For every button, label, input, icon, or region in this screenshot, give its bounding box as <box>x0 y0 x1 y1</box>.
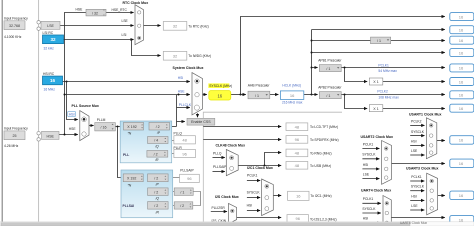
label: HSI input (boxed) <box>68 112 76 117</box>
PLL N multiplier <box>124 122 144 130</box>
wire: branch to RNG box <box>265 153 282 166</box>
PLL R divider <box>147 151 168 158</box>
svg-text:PCLK1: PCLK1 <box>411 175 422 179</box>
X1 multiplier APB2 <box>369 105 383 112</box>
svg-text:To SPDIFRX (MHz): To SPDIFRX (MHz) <box>310 138 339 142</box>
PLLQ value box <box>174 136 196 144</box>
FCLK Cortex clock box <box>450 49 474 57</box>
wire: to FCLK box <box>312 52 445 54</box>
svg-text:/ 2: / 2 <box>154 153 158 157</box>
HSI RC box <box>43 76 63 85</box>
svg-text:PLLQ: PLLQ <box>213 151 222 155</box>
junction: SYSCLK ethernet branch <box>240 94 242 96</box>
svg-text:AHB Prescaler: AHB Prescaler <box>248 84 271 88</box>
To RNG value box <box>286 149 308 157</box>
RTC clock mux <box>135 5 144 45</box>
svg-text:HSI: HSI <box>363 163 369 167</box>
wire: PLLI2SR stub into I2S mux <box>211 211 227 213</box>
svg-text:HSI: HSI <box>363 217 369 221</box>
svg-text:HSI: HSI <box>411 140 417 144</box>
svg-text:16 MHz: 16 MHz <box>44 87 56 91</box>
svg-text:HSE: HSE <box>47 134 55 138</box>
svg-text:108 MHz max: 108 MHz max <box>378 96 399 100</box>
label: SYSCLK (MHz) highlighted <box>208 83 229 88</box>
svg-text:PLLSAI: PLLSAI <box>123 204 135 208</box>
UART4 mux <box>383 196 391 227</box>
wire: I2S mux output <box>237 217 282 219</box>
svg-text:16: 16 <box>459 106 464 111</box>
svg-text:USART2 Clock Mux: USART2 Clock Mux <box>361 135 394 139</box>
wire: PLLM down to PLLSAI <box>118 127 124 178</box>
UART4 output box <box>450 216 474 224</box>
svg-text:X 192: X 192 <box>127 177 136 181</box>
junction: cortex timer branch <box>311 40 313 42</box>
svg-text:16: 16 <box>459 93 464 98</box>
svg-text:X 192: X 192 <box>127 125 136 129</box>
svg-text:4-26 MHz: 4-26 MHz <box>4 144 19 148</box>
wire: CSS arrow from mux bottom <box>197 113 199 117</box>
svg-text:16: 16 <box>290 93 295 98</box>
LSI RC box <box>43 35 64 44</box>
svg-text:USART3 Clock Mux: USART3 Clock Mux <box>406 167 439 171</box>
PLLSAI container <box>121 170 173 218</box>
HCLK value box <box>280 91 303 100</box>
To USB value box <box>286 162 308 170</box>
PLLSAI P divider <box>148 174 169 182</box>
wire: PLLSAIP stub into CLK48 mux <box>213 171 225 173</box>
wire: USART3 output <box>438 195 445 197</box>
wire: CLK48 mux output to USB <box>238 165 281 167</box>
svg-text:APB2 Prescaler: APB2 Prescaler <box>318 86 342 90</box>
USART2 mux <box>382 141 392 185</box>
panel left edge line <box>1 0 3 222</box>
svg-text:/ 1: / 1 <box>255 94 259 98</box>
svg-text:LSE: LSE <box>363 173 370 177</box>
svg-text:96: 96 <box>295 216 300 221</box>
To LCD-TFT value box <box>286 123 308 131</box>
svg-text:54 MHz max: 54 MHz max <box>378 69 397 73</box>
wire: into APB1 prescaler <box>312 67 318 69</box>
svg-text:PCLK1: PCLK1 <box>363 197 374 201</box>
cortex timer divider <box>371 37 391 44</box>
wire: PLLP output riser <box>170 126 177 128</box>
svg-text:PCLK1: PCLK1 <box>378 63 389 67</box>
junction: HSE CSS branch <box>178 94 180 96</box>
svg-text:HSE: HSE <box>76 8 84 12</box>
svg-text:LSI: LSI <box>122 33 127 37</box>
svg-text:PCLK2: PCLK2 <box>411 119 422 123</box>
svg-text:/ 2: / 2 <box>154 190 158 194</box>
svg-text:25: 25 <box>13 134 17 138</box>
junction: PLLM split <box>117 126 119 128</box>
svg-text:SYSCLK (MHz): SYSCLK (MHz) <box>209 84 232 88</box>
junction: APB1 branch <box>311 67 313 69</box>
svg-text:PLLSAIP: PLLSAIP <box>180 168 194 172</box>
svg-text:System Clock Mux: System Clock Mux <box>173 66 204 70</box>
wire: HSI down to PLL source mux <box>67 81 78 119</box>
svg-text:48: 48 <box>295 125 300 130</box>
svg-text:SYSCLK: SYSCLK <box>411 185 425 189</box>
svg-text:RTC Clock Mux: RTC Clock Mux <box>123 1 149 5</box>
USART2 output box <box>450 159 474 168</box>
svg-text:/ 2: / 2 <box>154 204 158 208</box>
svg-text:16: 16 <box>50 78 56 83</box>
svg-text:/ 1: / 1 <box>180 190 184 194</box>
svg-text:16: 16 <box>459 193 464 198</box>
junction: FCLK branch <box>311 52 313 54</box>
To I2S value box <box>287 215 308 223</box>
junction: HSI rail <box>66 81 68 83</box>
svg-text:APB1 Prescaler: APB1 Prescaler <box>318 58 342 62</box>
wire: to cortex divider <box>312 40 371 42</box>
junction: LSI IWDG branch <box>131 39 133 41</box>
PLLSAI R divider <box>148 202 169 210</box>
svg-text:/ 2: / 2 <box>154 177 158 181</box>
CLK48 mux <box>226 150 238 176</box>
wire: PLL source mux output to PLLM <box>89 125 94 127</box>
Enable CSS button <box>187 118 215 125</box>
wire: I2S_CKIN stub into I2S mux <box>211 224 227 226</box>
wire: PLLSAI to Q divider <box>146 191 148 193</box>
To Ethernet PTP box <box>450 13 474 21</box>
junction: HSE at rail <box>64 94 66 96</box>
svg-text:To IWDG (KHz): To IWDG (KHz) <box>188 54 211 58</box>
wire: UART4 output <box>391 217 445 219</box>
svg-text:16: 16 <box>296 194 301 199</box>
svg-text:SYSCLK: SYSCLK <box>362 207 376 211</box>
LSE source box <box>41 21 60 29</box>
svg-text:96: 96 <box>187 176 192 181</box>
svg-text:To I2S1,2,3 (MHz): To I2S1,2,3 (MHz) <box>310 217 337 221</box>
wire: RTC divider to RTC mux <box>106 12 134 14</box>
junction: HCLK rail <box>311 94 313 96</box>
APB1 peripheral clocks box <box>450 64 474 72</box>
svg-text:PLLQ: PLLQ <box>174 131 183 135</box>
svg-text:32 kHz: 32 kHz <box>44 46 55 50</box>
PLLR value box <box>174 149 196 157</box>
system clock mux <box>192 73 203 115</box>
wire: PLLM to PLL block <box>115 126 123 128</box>
svg-text:Input Frequency: Input Frequency <box>4 127 28 131</box>
wire: PLLSAI DIVR feed <box>168 205 174 207</box>
APB2 peripheral clocks box <box>450 91 474 99</box>
wire: X1 to APB1 timer box <box>383 81 445 83</box>
PLL source mux <box>80 111 89 141</box>
svg-text:I2C1 Clock Mux: I2C1 Clock Mux <box>247 166 273 170</box>
wire: PLLCLK into system clock mux <box>177 107 190 109</box>
svg-text:16: 16 <box>459 50 464 55</box>
svg-text:PLLSAIP: PLLSAIP <box>213 165 227 169</box>
LSE pin circle bottom <box>37 27 40 30</box>
wire: to SPDIFRX box <box>203 139 281 141</box>
svg-text:To USB (MHz): To USB (MHz) <box>310 164 331 168</box>
svg-text:48: 48 <box>295 163 300 168</box>
svg-text:32: 32 <box>50 37 56 42</box>
wire: PLL to Q divider <box>146 140 148 142</box>
svg-text:PCLK2: PCLK2 <box>377 90 388 94</box>
wire: SYSCLK box to AHB prescaler <box>231 94 246 96</box>
HCLK to AHB bus box <box>450 26 474 34</box>
wire: HSE box to PLL source mux <box>59 134 78 136</box>
svg-text:16: 16 <box>459 28 464 33</box>
svg-text:SYSCLK: SYSCLK <box>362 153 376 157</box>
svg-text:PLLI2SR: PLLI2SR <box>212 206 226 210</box>
APB1 prescaler dropdown <box>319 65 341 72</box>
svg-text:*N: *N <box>128 132 132 136</box>
wire: PLLSAI to R divider <box>146 205 148 207</box>
wire: HSE rail to system clock mux <box>64 94 189 96</box>
wire: AHB prescaler to HCLK box <box>270 94 279 96</box>
svg-text:UART5 Clock Mux: UART5 Clock Mux <box>400 221 427 225</box>
APB1 timer clocks box <box>450 78 474 86</box>
svg-text:HSI: HSI <box>178 76 184 80</box>
wire: HSI stub into I2C1 mux <box>247 210 260 212</box>
svg-text:PLL Source Mux: PLL Source Mux <box>72 104 99 108</box>
wire: PLLQ divider to value box <box>168 140 174 142</box>
HSE pin circle bottom <box>37 138 40 141</box>
wire: LSE to RTC mux <box>60 25 134 27</box>
svg-text:LSE: LSE <box>411 204 418 208</box>
svg-text:PCLK1: PCLK1 <box>363 142 374 146</box>
svg-text:32.768: 32.768 <box>9 24 20 28</box>
svg-text:Input Frequency: Input Frequency <box>4 17 28 21</box>
PLLSAI DIVR divider <box>174 202 193 209</box>
svg-text:Enable CSS: Enable CSS <box>191 120 211 124</box>
wire: PLLSAI DIVQ feed <box>168 191 174 193</box>
wire: APB2 prescaler to APB2 peripheral box <box>341 94 445 96</box>
svg-text:96: 96 <box>295 137 300 142</box>
svg-text:PLLM: PLLM <box>97 118 106 122</box>
svg-text:216 MHz max: 216 MHz max <box>282 101 303 105</box>
wire: I2C1 mux output <box>273 195 281 197</box>
svg-text:16: 16 <box>217 93 222 98</box>
wire: X1 to APB2 timer box <box>383 108 445 110</box>
svg-text:SYSCLK: SYSCLK <box>247 191 261 195</box>
wire: APB2 to X1 multiplier <box>345 95 368 109</box>
wire: system clock mux output to SYSCLK box <box>203 94 207 96</box>
PLLSAI N multiplier <box>123 174 143 182</box>
wire: to LCD-TFT box <box>203 126 281 128</box>
svg-text:To RNG (MHz): To RNG (MHz) <box>310 152 332 156</box>
svg-text:HSI RC: HSI RC <box>43 72 55 76</box>
svg-text:HSE: HSE <box>178 89 186 93</box>
svg-text:/ 16: / 16 <box>101 126 107 130</box>
wire: USART3 input stubs <box>410 181 424 210</box>
svg-text:HSE_RTC: HSE_RTC <box>112 8 128 12</box>
svg-text:To RTC (KHz): To RTC (KHz) <box>188 24 208 28</box>
svg-text:16: 16 <box>459 38 464 43</box>
svg-text:/ 2: / 2 <box>180 204 184 208</box>
PLL P divider <box>149 122 170 130</box>
PLL Q divider <box>148 137 168 144</box>
svg-text:/Q: /Q <box>154 145 159 149</box>
svg-text:/ 1: / 1 <box>326 67 330 71</box>
APB2 timer clocks box <box>450 104 474 112</box>
PLLSAI Q divider <box>148 188 169 196</box>
wire: LSI to RTC mux <box>64 39 134 41</box>
wire: PLLSAI N to P divider <box>143 177 147 179</box>
PLLSAI DIVQ divider <box>174 188 193 196</box>
wire: PLL to R divider <box>145 153 148 155</box>
svg-text:X 1: X 1 <box>373 80 378 84</box>
wire: cortex divider to cortex timer box <box>391 40 445 42</box>
svg-text:16: 16 <box>459 161 464 166</box>
wire: PLL internal vertical <box>146 126 148 154</box>
svg-text:*N: *N <box>128 183 132 187</box>
wire: PLL N to P divider <box>144 126 150 128</box>
HSE input frequency box <box>4 131 25 140</box>
svg-text:/ 2: / 2 <box>156 125 160 129</box>
svg-text:X 1: X 1 <box>373 107 378 111</box>
LSE pin circle top <box>37 21 40 24</box>
svg-text:16: 16 <box>459 79 464 84</box>
svg-text:I2S Clock Mux: I2S Clock Mux <box>215 195 239 199</box>
svg-text:/ 4: / 4 <box>154 139 158 143</box>
wire: PLLSAIP to value box <box>168 177 180 179</box>
wire: HCLK rail vertical <box>311 30 313 95</box>
svg-text:16: 16 <box>459 138 464 143</box>
I2C1 mux <box>262 179 274 216</box>
USART1 output box <box>450 136 474 145</box>
svg-text:CLK48 Clock Mux: CLK48 Clock Mux <box>216 144 246 148</box>
junction: HSE rail bottom <box>64 134 66 136</box>
wire: UART4 input stubs <box>362 203 380 223</box>
svg-text:UART4 Clock Mux: UART4 Clock Mux <box>361 188 391 192</box>
svg-text:/R: /R <box>155 210 160 214</box>
oscillator pin rail (vertical light line) <box>38 0 40 222</box>
I2S mux <box>229 203 237 223</box>
USART1 mux <box>426 118 436 159</box>
AHB prescaler dropdown <box>248 91 270 99</box>
wire: RTC mux output <box>144 25 161 27</box>
svg-text:32: 32 <box>173 24 178 29</box>
wire: APB1 prescaler to APB1 peripheral box <box>341 67 445 69</box>
svg-text:To LCD-TFT (MHz): To LCD-TFT (MHz) <box>310 125 338 129</box>
junction: APB1 timer branch <box>344 67 346 69</box>
svg-text:SYSCLK: SYSCLK <box>411 130 425 134</box>
svg-text:/ 32: / 32 <box>92 11 98 15</box>
HSE pin circle top <box>37 132 40 135</box>
To IWDG value box <box>163 51 187 60</box>
PLLSAIP value box <box>180 174 200 182</box>
USART3 output box <box>450 191 474 200</box>
bottom scrollbar thumb <box>1 223 410 226</box>
svg-text:48: 48 <box>295 151 300 156</box>
wire: HCLK box to APB2 prescaler <box>304 94 318 96</box>
svg-text:/ 1: / 1 <box>326 94 330 98</box>
wire: PLLR divider to value box <box>168 153 174 155</box>
HSE source box <box>42 131 60 139</box>
PLLM divider dropdown <box>95 123 116 131</box>
wire: CSS vertical and PLLP riser <box>176 95 178 127</box>
wire: APB1 to X1 multiplier <box>345 68 368 82</box>
wire: PLLQ stub into CLK48 mux <box>213 157 225 159</box>
wire: USART1 input stubs <box>410 125 424 155</box>
svg-text:32: 32 <box>173 54 178 59</box>
junction: RNG branch <box>264 165 266 167</box>
svg-text:LSE: LSE <box>47 24 54 28</box>
X1 multiplier APB1 <box>369 78 383 85</box>
USART3 mux <box>427 173 438 215</box>
wire: SYSCLK up to ethernet PTP <box>241 17 445 95</box>
wire: USART1 output <box>437 140 445 142</box>
svg-text:PCLK1: PCLK1 <box>247 174 258 178</box>
svg-text:USART1 Clock Mux: USART1 Clock Mux <box>409 113 442 117</box>
wire: HSE to RTC divider (top) <box>65 13 87 135</box>
svg-text:To I2C1 (MHz): To I2C1 (MHz) <box>310 194 331 198</box>
To RTC value box <box>163 22 187 31</box>
svg-text:16: 16 <box>459 66 464 71</box>
svg-text:PLL: PLL <box>123 153 129 157</box>
HSE_RTC divider box <box>86 9 106 16</box>
peripheral section container edge <box>203 112 342 222</box>
wire: HCLK to AHB bus box <box>312 29 445 31</box>
svg-text:96: 96 <box>182 151 187 156</box>
PLL container <box>120 121 172 163</box>
svg-text:HSE: HSE <box>69 127 77 131</box>
wire: SYSCLK stub into I2C1 mux <box>247 197 260 199</box>
svg-text:LSI RC: LSI RC <box>43 31 54 35</box>
svg-text:LSE: LSE <box>411 149 418 153</box>
To I2C1 value box <box>288 191 309 200</box>
svg-text:16: 16 <box>459 14 464 19</box>
bottom scrollbar track <box>0 222 474 226</box>
To Cortex System timer box <box>450 36 474 44</box>
svg-text:HCLK (MHz): HCLK (MHz) <box>282 84 301 88</box>
wire: DIVQ DIVR collector <box>193 192 201 206</box>
To SPDIFRX value box <box>286 136 308 144</box>
svg-text:48: 48 <box>182 138 187 143</box>
svg-text:/R: /R <box>154 158 159 162</box>
svg-text:HSI: HSI <box>411 194 417 198</box>
LSE input frequency box <box>4 21 25 30</box>
svg-text:/ 1: / 1 <box>377 39 381 43</box>
wire: PLLSAI internal vertical <box>145 178 147 206</box>
svg-text:4-1000 KHz: 4-1000 KHz <box>4 35 22 39</box>
wire: HSI to system clock mux <box>63 81 190 83</box>
svg-text:PLLCLK: PLLCLK <box>179 103 192 107</box>
svg-text:HSI: HSI <box>69 112 75 116</box>
wire: USART2 input stubs <box>362 149 379 179</box>
APB2 prescaler dropdown <box>319 92 341 99</box>
svg-text:/Q: /Q <box>155 196 160 200</box>
junction: APB2 timer branch <box>344 94 346 96</box>
wire: USART2 output <box>392 163 445 165</box>
svg-text:HSI: HSI <box>247 203 253 207</box>
wire: PCLK1 stub into I2C1 mux <box>247 180 260 182</box>
SYSCLK yellow value box <box>209 91 231 100</box>
wire: into Enable CSS <box>177 121 185 123</box>
wire: LSI to IWDG box <box>132 40 161 56</box>
svg-text:LSE: LSE <box>122 19 129 23</box>
